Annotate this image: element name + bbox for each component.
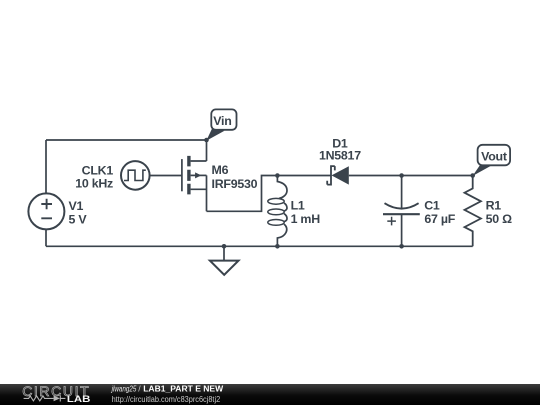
svg-text:http://circuitlab.com/c83prc6c: http://circuitlab.com/c83prc6cj8tj2 [112,394,221,404]
svg-text:jlwang25: jlwang25 [111,384,137,394]
svg-text:C1: C1 [424,198,440,212]
svg-text:67 µF: 67 µF [424,212,455,226]
svg-text:LAB: LAB [67,394,91,404]
svg-text:M6: M6 [212,163,229,177]
svg-text:V1: V1 [69,199,84,213]
svg-text:LAB1_PART E NEW: LAB1_PART E NEW [143,384,224,394]
svg-text:10 kHz: 10 kHz [75,177,113,191]
svg-text:R1: R1 [486,198,502,212]
svg-text:Vout: Vout [481,149,507,163]
svg-text:50 Ω: 50 Ω [486,212,512,226]
svg-text:1 mH: 1 mH [291,212,321,226]
svg-text:1N5817: 1N5817 [319,149,361,163]
svg-text:5 V: 5 V [69,212,88,226]
svg-text:CLK1: CLK1 [82,163,114,177]
svg-text:Vin: Vin [213,114,231,128]
svg-text:L1: L1 [291,198,305,212]
svg-text:IRF9530: IRF9530 [212,177,258,191]
